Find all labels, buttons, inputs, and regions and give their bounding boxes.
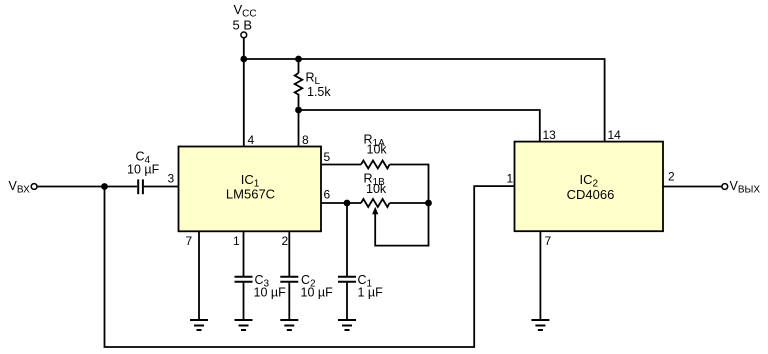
svg-text:10 µF: 10 µF [127,163,160,177]
svg-text:5 В: 5 В [233,17,253,32]
svg-text:CD4066: CD4066 [567,187,615,202]
svg-text:4: 4 [248,133,255,147]
svg-text:5: 5 [324,150,331,164]
svg-text:6: 6 [324,188,331,202]
svg-text:2: 2 [668,170,675,184]
svg-text:1 µF: 1 µF [358,286,384,300]
svg-text:7: 7 [186,234,193,248]
svg-text:1: 1 [233,234,240,248]
svg-text:7: 7 [545,234,552,248]
svg-text:10k: 10k [367,143,388,157]
svg-text:10k: 10k [366,182,387,196]
svg-text:8: 8 [302,133,309,147]
svg-text:LM567C: LM567C [226,186,275,201]
svg-text:3: 3 [168,172,175,186]
svg-text:2: 2 [282,234,289,248]
svg-text:10 µF: 10 µF [254,286,287,300]
svg-text:10 µF: 10 µF [301,286,334,300]
svg-text:1.5k: 1.5k [307,85,331,99]
svg-text:13: 13 [543,128,557,142]
svg-text:1: 1 [507,172,514,186]
svg-text:14: 14 [608,128,622,142]
